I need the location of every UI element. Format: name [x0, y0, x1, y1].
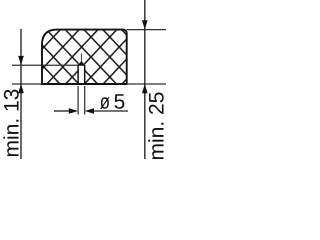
- hole left edge: [77, 65, 79, 85]
- dia5 extension left: [77, 86, 79, 115]
- bottom edge extensions: [12, 83, 42, 85]
- hole depth extension line: [12, 64, 78, 66]
- dia5 dim line left: [54, 110, 70, 112]
- label min. 25: [148, 93, 163, 160]
- dia5 left arrowhead: [69, 108, 78, 113]
- hole right edge: [84, 65, 86, 85]
- right dimension line: [144, 0, 146, 159]
- left upper arrowhead: [18, 56, 24, 65]
- right upper arrowhead: [142, 20, 148, 29]
- top edge extension: [127, 29, 166, 31]
- body cross-hatch: [40, 27, 130, 87]
- hole cone: [78, 62, 85, 66]
- right lower arrowhead: [142, 84, 148, 93]
- dia5 dim line right: [93, 110, 129, 112]
- label min. 13: [3, 90, 18, 157]
- label 5: [114, 94, 124, 109]
- hole slot white: [79, 63, 84, 83]
- dia5 right arrowhead: [85, 108, 94, 113]
- left dimension line: [20, 29, 22, 159]
- left lower arrowhead: [18, 84, 24, 93]
- dia5 extension right: [84, 86, 86, 115]
- body outline: [42, 30, 127, 84]
- label dia 5: [100, 97, 109, 109]
- hole centerline: [81, 54, 83, 63]
